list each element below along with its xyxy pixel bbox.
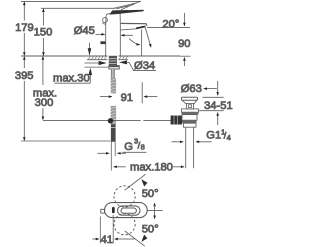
G3/8 arrow left	[98, 152, 110, 154]
deck line right	[118, 55, 180, 57]
svg-text:150: 150	[34, 27, 53, 39]
34-51 extension top	[203, 96, 224, 98]
dimension 34-51 bottom arrow	[217, 113, 219, 126]
drain flange cap	[181, 97, 197, 100]
svg-text:50°: 50°	[142, 224, 159, 236]
faucet dome top	[106, 13, 120, 22]
drain tail pipe right wall	[193, 127, 195, 168]
dashed circle handle swing lower	[114, 214, 135, 235]
svg-text:91: 91	[121, 92, 133, 104]
G1 1/4 arrow right	[196, 141, 212, 143]
svg-text:Ø34: Ø34	[134, 60, 155, 72]
svg-text:90: 90	[178, 38, 190, 50]
G1 1/4 arrow left	[172, 141, 184, 143]
41 extension line left	[99, 217, 101, 244]
svg-text:4: 4	[227, 133, 231, 142]
swing leg lower leader arrowhead	[141, 235, 147, 242]
rod stub left of stadium	[101, 209, 105, 213]
drain lower body	[183, 123, 196, 127]
shank thread block	[109, 56, 117, 66]
pop-up rod horizontal	[43, 119, 141, 121]
dimension 90 top arrow	[183, 13, 185, 26]
spout dark tip wedge	[136, 26, 145, 30]
41 extension line right	[112, 215, 114, 243]
stream angle arc	[129, 39, 140, 45]
swing leg upper leader arrowhead	[141, 179, 147, 186]
hose end connector G3/8	[111, 124, 116, 142]
faucet body left edge	[105, 23, 107, 56]
deck line left	[21, 55, 107, 57]
swing leg upper	[125, 174, 146, 190]
supply hose lower	[111, 106, 116, 124]
inner slot inner ring	[121, 208, 136, 213]
spout top line	[120, 23, 147, 25]
drain mid body	[182, 115, 197, 121]
svg-text:395: 395	[15, 70, 34, 82]
dimension max.300 line	[42, 56, 44, 85]
svg-text:41: 41	[101, 234, 113, 246]
label O34 underline	[133, 70, 156, 72]
G3/8 extension line left	[110, 142, 112, 171]
mounting washer below deck	[109, 66, 119, 69]
G3/8 extension line right	[114, 142, 116, 156]
svg-text:G: G	[124, 141, 133, 153]
20 deg leader line	[147, 27, 190, 29]
O63 arrow	[204, 88, 217, 90]
dimension 34-51 top arrow	[217, 81, 219, 96]
svg-text:34-51: 34-51	[204, 100, 233, 112]
dimension max.180 arrow right	[173, 166, 184, 168]
deck extension right for 90 dim	[180, 55, 191, 57]
swing centerline	[148, 210, 163, 212]
extension line lever-down height (150 ref)	[41, 7, 115, 9]
aerator tick on body left	[100, 41, 105, 44]
inner slot outer ring	[118, 206, 141, 215]
threaded stud	[111, 69, 115, 78]
dimension 41 arrow right	[115, 238, 123, 240]
svg-text:G1: G1	[206, 129, 221, 141]
G3/8 arrow right	[117, 152, 126, 154]
rod junction ball	[108, 118, 113, 123]
svg-text:300: 300	[35, 97, 54, 109]
deck slab bottom right	[118, 59, 128, 61]
deck hatching left	[88, 56, 106, 60]
dimension 41 arrow left	[92, 238, 99, 240]
lever end knob	[103, 18, 108, 23]
G3/8 underline	[122, 151, 146, 153]
lever raised outline	[113, 1, 141, 10]
extension line hose end (395 ref)	[21, 140, 111, 142]
deck slab bottom left	[87, 59, 107, 61]
dimension 90 bottom arrow	[183, 57, 185, 66]
max.30 bracket	[55, 82, 91, 84]
dimension 395 line	[23, 56, 25, 68]
extension line top (lever raised height, 179 ref)	[21, 0, 141, 2]
drain upper body	[182, 109, 199, 112]
water stream line with arrow	[145, 27, 151, 48]
dimension 91 arrow right	[144, 96, 158, 98]
svg-text:179: 179	[15, 22, 34, 34]
svg-text:Ø45: Ø45	[74, 25, 95, 37]
drain plug taper	[182, 100, 186, 104]
drain stem block	[186, 104, 193, 109]
svg-text:8: 8	[141, 143, 145, 152]
spout underside	[120, 29, 136, 30]
dimension 150 line	[42, 9, 44, 26]
pop-up rod hole	[112, 207, 115, 213]
max deck thickness reference line	[85, 66, 110, 68]
41 tail line	[123, 238, 135, 240]
34-51 extension bottom	[199, 110, 224, 112]
dashed circle handle swing upper	[114, 186, 135, 207]
dimension 179 line	[23, 2, 25, 21]
outlet axis extension below deck	[141, 82, 143, 103]
supply hose upper	[111, 78, 116, 93]
hole dia arrow left (O34)	[85, 62, 100, 64]
svg-text:Ø63: Ø63	[181, 83, 202, 95]
dimension 91 arrow left	[100, 96, 112, 98]
faucet body right edge	[119, 23, 121, 56]
swing vertex tick with arrows	[154, 203, 156, 207]
hole dia arrow right (O34) with bent leader	[119, 60, 127, 64]
O45 arrow left	[96, 33, 105, 35]
lever blade down position	[109, 10, 144, 15]
svg-text:max.180: max.180	[130, 161, 173, 173]
base stadium outline (bottom view)	[105, 203, 148, 218]
O45 arrow right	[121, 34, 133, 36]
dimension max.180 arrow left	[114, 166, 126, 168]
swing leg lower	[125, 231, 145, 246]
insertion direction down arrow	[89, 43, 91, 50]
svg-text:50°: 50°	[142, 188, 159, 200]
drain tail pipe left wall	[185, 127, 187, 168]
rod attachment nut	[171, 116, 182, 125]
svg-text:20°: 20°	[162, 18, 179, 30]
outlet axis extension line	[141, 30, 143, 57]
deck hatching right	[119, 56, 128, 60]
